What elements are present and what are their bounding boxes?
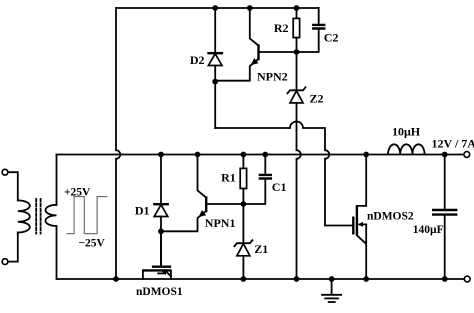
NPN1 emitter arrow <box>199 210 207 217</box>
svg-text:12V / 7A: 12V / 7A <box>432 136 474 150</box>
transistor Q NPN1 <box>161 155 243 232</box>
svg-text:+25V: +25V <box>64 186 91 198</box>
wire C3 bottom <box>444 215 446 279</box>
svg-text:10μH: 10μH <box>392 125 421 139</box>
nDMOS1 gate bar <box>152 266 171 268</box>
svg-text:nDMOS1: nDMOS1 <box>136 286 183 298</box>
svg-text:NPN1: NPN1 <box>205 216 236 230</box>
svg-text:D2: D2 <box>190 53 205 67</box>
nDMOS1 channel bar <box>143 269 172 271</box>
zener Z1 <box>234 204 252 279</box>
ground bar 1 <box>322 294 341 296</box>
node dot top rail R2 <box>294 5 300 11</box>
node dot D2 emitter NPN2 <box>212 79 218 85</box>
Z2 triangle <box>290 91 303 103</box>
node dot R1 C1 base NPN1 <box>241 201 247 207</box>
nDMOS1 gate wire <box>160 231 162 265</box>
D1 triangle <box>154 205 168 217</box>
NPN1 base wire <box>206 203 243 205</box>
wire C1 top <box>264 155 266 175</box>
node dot top rail NPN2 collector <box>247 5 253 11</box>
node dot mid rail R1 <box>241 152 247 158</box>
nDMOS2 drain <box>357 155 366 206</box>
terminal input top <box>2 169 8 175</box>
wire Z2 bottom with hop over mid rail <box>297 103 301 279</box>
secondary winding <box>45 205 56 226</box>
svg-text:R1: R1 <box>221 170 236 184</box>
svg-text:Z2: Z2 <box>310 91 324 105</box>
nDMOS1 source diagonal <box>165 270 171 276</box>
terminal output bottom <box>464 276 470 282</box>
wire R1 top <box>242 155 244 169</box>
svg-text:R2: R2 <box>274 21 289 35</box>
wire D1 bottom <box>160 217 162 266</box>
wire C1 bottom <box>243 179 265 205</box>
svg-text:−25V: −25V <box>79 238 106 250</box>
node dot mid rail nDMOS2 drain <box>363 152 369 158</box>
wire D1 top <box>160 155 162 205</box>
capacitor C2 <box>297 8 326 52</box>
wire Z1 bottom <box>242 256 244 279</box>
node dot top rail D2 <box>212 5 218 11</box>
node dot bottom rail nDMOS2 source <box>363 276 369 282</box>
node dot bottom rail left <box>113 276 119 282</box>
terminal input bottom <box>2 259 8 265</box>
resistor R2 <box>293 8 299 52</box>
terminal output top <box>464 152 470 158</box>
wire gate net nDMOS2 (D2 node to gate, hops) <box>215 122 353 226</box>
node dot bottom rail Z1 <box>241 276 247 282</box>
wire left vertical with hop over mid rail <box>116 8 120 279</box>
primary winding <box>18 200 30 232</box>
wire Z2 top <box>296 52 298 90</box>
transformer T1 <box>2 155 56 280</box>
node dot R2 C2 base NPN2 <box>294 49 300 55</box>
node dot mid rail 12V <box>442 152 448 158</box>
R1 body <box>240 168 246 188</box>
wire D2 bottom <box>214 66 216 129</box>
node dot mid rail D1 <box>158 152 164 158</box>
diode D1 <box>153 155 169 266</box>
R2 body <box>293 18 299 37</box>
node dot bottom rail Z2 <box>294 276 300 282</box>
NPN2 collector <box>250 8 259 46</box>
svg-text:140μF: 140μF <box>413 224 444 236</box>
transistor Q NPN2 <box>215 8 296 81</box>
wire bottom rail <box>57 278 465 280</box>
svg-text:D1: D1 <box>135 203 150 217</box>
svg-text:C2: C2 <box>324 30 339 44</box>
wire secondary top lead <box>56 155 58 205</box>
nDMOS2 source vertical <box>365 224 367 279</box>
capacitor C1 <box>243 155 272 205</box>
inductor L1 10uH <box>388 144 425 154</box>
wire C2 bottom <box>297 29 319 53</box>
node dot mid rail C1 <box>262 152 268 158</box>
wire secondary bottom lead <box>56 226 58 279</box>
ground bar 2 <box>325 297 338 299</box>
NPN1 collector <box>198 155 207 198</box>
D2 cathode bar <box>207 52 223 54</box>
mosfet nDMOS1 <box>143 231 172 279</box>
node dot mid rail NPN1 collector <box>195 152 201 158</box>
svg-text:NPN2: NPN2 <box>257 70 288 84</box>
D2 triangle <box>208 54 222 66</box>
svg-text:Z1: Z1 <box>254 242 268 256</box>
NPN2 base bar <box>257 44 259 60</box>
NPN2 emitter <box>215 59 258 81</box>
mosfet nDMOS2 <box>353 155 366 280</box>
zener Z2 <box>288 52 306 279</box>
wire mid rail <box>57 154 464 156</box>
wire R2 top <box>296 8 298 18</box>
Z1 cathode bar with bent tips <box>234 240 252 246</box>
nDMOS2 arrow <box>358 222 363 227</box>
diode D2 <box>207 8 223 128</box>
wire top rail <box>116 7 319 9</box>
NPN1 base bar <box>205 196 207 212</box>
nDMOS2 channel bar <box>356 206 358 235</box>
wire C3 top <box>444 155 446 211</box>
transformer core <box>35 199 37 234</box>
NPN2 emitter arrow <box>251 58 259 65</box>
wire D2 top <box>214 8 216 53</box>
node dot bottom rail ground <box>329 276 335 282</box>
nDMOS2 gate bar <box>352 217 354 235</box>
ground <box>322 279 341 302</box>
D1 cathode bar <box>153 203 169 205</box>
nDMOS1 arrow <box>162 271 168 275</box>
wire Z1 top <box>242 204 244 243</box>
nDMOS1 source stub <box>170 271 172 279</box>
wire primary bottom lead <box>8 233 18 262</box>
NPN2 base wire <box>259 51 297 53</box>
svg-text:nDMOS2: nDMOS2 <box>367 211 414 223</box>
ground stub <box>331 279 333 295</box>
wire C2 top <box>318 8 320 25</box>
wire R2 bottom <box>296 38 298 52</box>
wire R1 bottom <box>242 189 244 205</box>
node dot bottom rail C3 <box>442 276 448 282</box>
C2 plates <box>312 25 325 29</box>
ground bar 3 <box>329 301 335 303</box>
nDMOS1 arrow tail <box>158 272 164 274</box>
Z1 triangle <box>237 244 250 256</box>
C3 plates <box>432 210 457 215</box>
nDMOS1 drain stub <box>142 270 144 279</box>
resistor R1 <box>240 155 246 205</box>
svg-text:C1: C1 <box>272 180 287 194</box>
nDMOS2 arrow tail <box>360 223 367 225</box>
capacitor C3 140uF <box>432 155 457 280</box>
NPN1 emitter <box>161 211 206 231</box>
node dot D1 emitter NPN1 <box>158 228 164 234</box>
Z2 cathode bar with bent tips <box>288 87 306 93</box>
wire primary top lead <box>8 172 18 200</box>
nDMOS2 source diagonal <box>357 235 366 243</box>
square wave source indicator <box>66 197 107 234</box>
C1 plates <box>259 175 272 179</box>
